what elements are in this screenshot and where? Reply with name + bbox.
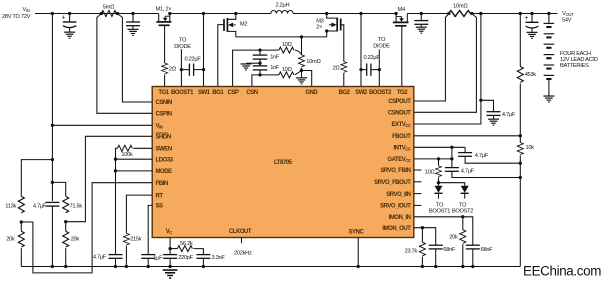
resistor 113k (FBIN divider top) [18,196,24,213]
svg-text:4.7µF: 4.7µF [33,203,47,209]
resistor 10k (FBOUT bottom divider) [519,136,521,143]
wire EXTVCC to VOUT rail [414,14,481,125]
resistor 10 Ohm (boost diodes feed) [438,159,440,166]
svg-text:EEChina.com: EEChina.com [523,264,601,279]
svg-text:BG2: BG2 [339,90,351,96]
capacitor (M4 output ceramic) [414,14,428,27]
svg-text:SS: SS [156,204,164,210]
svg-text:+: + [524,15,528,22]
wire kelvin CSNOUT [414,14,476,113]
ground (sense filter) [241,64,252,70]
svg-text:TG1: TG1 [158,90,169,96]
svg-text:CSP: CSP [228,90,239,96]
svg-text:20k: 20k [6,237,15,243]
capacitor 220pF (VC) [163,249,177,267]
svg-text:10Ω: 10Ω [425,170,436,176]
svg-text:10mΩ: 10mΩ [306,59,321,65]
capacitor 4.7uF (LDO33) [109,171,123,267]
svg-text:56.2k: 56.2k [180,241,193,247]
svg-text:TO: TO [179,37,187,43]
wire GND pin drop [302,71,312,87]
svg-text:4.7µF: 4.7µF [93,255,107,261]
resistor 23.7k (IMON_OUT) [421,228,423,243]
junction SW2 rail / M4 source [394,12,397,15]
junction VIN rail / input bulk cap [68,12,71,15]
svg-text:TO: TO [378,37,386,43]
svg-text:VIN: VIN [23,7,30,13]
svg-text:GATEVCC: GATEVCC [387,157,411,163]
ground (output bulk cap) [527,32,538,38]
junction VIN rail / VIN vertical [51,12,54,15]
svg-text:SHDN: SHDN [156,135,171,141]
svg-text:CSPIN: CSPIN [156,112,172,118]
svg-text:71.5k: 71.5k [70,203,83,209]
svg-text:DIODE: DIODE [373,43,390,49]
junction VIN vertical / 113k stub [51,158,54,161]
svg-text:SWEN: SWEN [156,147,172,153]
svg-text:DIODE: DIODE [174,44,191,50]
svg-text:TO: TO [459,202,467,208]
wire BOOST1 vertical (TO DIODE) [180,49,182,86]
svg-text:FOUR EACH: FOUR EACH [560,51,591,57]
inductor L1 2.2uH [271,11,293,14]
svg-text:4.7µF: 4.7µF [461,168,475,174]
pin stub SRVO_FBIN [414,169,422,171]
junction VIN vertical / VIN pin wire [51,124,54,127]
capacitor 68nF (IMON_IN) [466,245,480,266]
node M3 source junction [325,29,328,32]
svg-text:VIN: VIN [156,124,163,130]
svg-text:TG2: TG2 [397,90,408,96]
svg-text:20k: 20k [71,237,80,243]
resistor RSENSE1 5mOhm [101,11,116,17]
capacitor CIN2 (ceramic input cap) [126,14,140,29]
wire kelvin CSNIN [117,14,152,103]
svg-text:202kHz: 202kHz [234,251,252,257]
svg-text:IMON_IN: IMON_IN [389,215,411,221]
svg-text:10Ω: 10Ω [282,42,293,48]
svg-text:12V LEAD ACID: 12V LEAD ACID [560,57,598,63]
resistor 20k (SHDN divider bottom, right) [65,222,67,232]
wire VIN pin [52,124,152,126]
junction ground rail / VC ground [168,265,171,268]
capacitor 4.7uF (INTVCC) [458,147,520,163]
svg-text:+: + [61,15,65,22]
resistor 10 Ohm (CSN filter) [279,72,294,78]
svg-text:10mΩ: 10mΩ [453,4,468,10]
resistor 100k (SWEN pullup) [117,145,132,151]
svg-text:CSPOUT: CSPOUT [388,99,411,105]
wire SHDN [66,136,153,221]
wire mid node to ground [246,62,260,64]
junction SW2 rail / SW2 pin [359,12,362,15]
svg-text:FBIN: FBIN [156,181,168,187]
capacitor 1nF (lower) [253,66,268,75]
resistor 10 Ohm (CSP filter) [279,47,294,53]
svg-text:2×: 2× [316,25,322,31]
wire SW2 rail segment [293,13,396,15]
svg-text:FBOUT: FBOUT [392,134,411,140]
svg-text:3.3nF: 3.3nF [212,255,226,261]
wire M3 gate to BG2 with 2 Ohm [341,25,344,62]
svg-text:BOOST2: BOOST2 [369,90,392,96]
junction M1 source / SW1 rail [168,12,171,15]
junction ground rail / SYNC [357,265,360,268]
wire SYNC to ground rail [357,238,359,267]
wire FBOUT [414,135,520,137]
junction 5mOhm left kelvin [100,12,103,15]
diode D2 (TO BOOST2) [461,186,469,194]
svg-text:CSNIN: CSNIN [156,100,173,106]
junction ground rail / 23.7k [421,265,424,268]
capacitor 3.3nF (VC) [196,255,210,267]
capacitor 0.22uF (BOOST2) [361,64,379,76]
svg-text:10k: 10k [526,145,535,151]
junction SW1 rail / SW1 pin [202,12,205,15]
ground (EXTVCC cap) [488,119,499,125]
capacitor 0.22uF (BOOST1) [181,64,203,76]
capacitor CIN1 (polarized input bulk cap) [61,14,76,32]
svg-text:5mΩ: 5mΩ [103,5,115,11]
svg-text:GND: GND [305,90,318,96]
svg-text:SYNC: SYNC [349,230,365,236]
ground (battery) [543,96,554,102]
svg-text:453k: 453k [525,72,537,78]
svg-text:INTVCC: INTVCC [393,146,410,152]
capacitor 4.7uF (input divider bypass) [45,202,59,266]
wire kelvin CSPOUT [414,14,449,102]
svg-text:SW2: SW2 [355,90,368,96]
wire to diode D2 [439,183,465,186]
junction ground rail / 20k imon [461,265,464,268]
ground (10mOhm bottom) [301,71,303,78]
svg-text:TO: TO [436,202,444,208]
svg-text:23.7k: 23.7k [405,248,418,254]
wire VC pin drop [169,238,171,249]
pin stub SRVO_IIN [414,193,422,195]
svg-text:1µF: 1µF [153,255,163,261]
wire SW1 rail segment [170,13,271,15]
junction SW1 rail / M2 drain [234,12,237,15]
junction ground rail / 3.3nF [202,265,205,268]
junction SW2 rail / M3 drain [325,12,328,15]
wire SW1 vertical [203,14,205,87]
wire VIN vertical [51,14,53,201]
wire RT [126,195,152,233]
junction 5mOhm right kelvin [116,12,119,15]
svg-text:M2: M2 [240,22,247,28]
svg-text:VOUT: VOUT [562,11,574,17]
resistor 2 Ohm (TG1 gate) [162,63,168,74]
svg-text:68nF: 68nF [443,247,456,253]
ground (input ceramic cap) [128,29,139,35]
capacitor 4.7uF (EXTVCC) [481,100,501,118]
svg-text:BG1: BG1 [212,90,224,96]
pin stub SRVO_IOUT [414,204,422,206]
junction VIN vertical / 71.5k stub [51,181,54,184]
junction ground rail / 20k right [64,265,67,268]
svg-text:10Ω: 10Ω [282,67,293,73]
transistor M2 [224,14,236,37]
pin stub CLKOUT [241,238,243,244]
svg-text:SRVO_FBOUT: SRVO_FBOUT [374,180,411,186]
svg-text:BOOST1: BOOST1 [429,209,450,215]
wire BOOST2 vertical (TO DIODE) [378,50,380,87]
svg-text:SRVO_IOUT: SRVO_IOUT [380,204,411,210]
junction ground rail / divider bypass cap [51,265,54,268]
svg-text:220pF: 220pF [178,255,193,261]
ground (output ceramic cap) [416,27,427,33]
wire M2 gate to BG1 [218,25,224,87]
wire CSP filter line [233,50,279,86]
svg-text:BATTERIES: BATTERIES [560,63,589,69]
wire FBIN [21,183,152,273]
resistor 56.2k (VC) [170,248,177,250]
wire stub to 71.5k top [52,182,65,196]
resistor 20k (FBIN divider bottom, left) [20,222,22,231]
svg-text:RT: RT [156,193,164,199]
transistor M4 [393,14,409,26]
svg-text:2Ω: 2Ω [169,66,177,72]
wire M1 gate to TG1 with 2 Ohm [164,25,166,63]
svg-text:28V TO 72V: 28V TO 72V [2,14,31,20]
junction ground rail / 215k [125,265,128,268]
wire MODE tie [116,159,153,171]
svg-text:SW1: SW1 [198,90,211,96]
svg-text:100k: 100k [121,152,133,158]
op-amp U1 LT8705 body [152,87,414,238]
svg-text:SRVO_IIN: SRVO_IIN [386,192,410,198]
junction ground rail / 68nF out [434,265,437,268]
wire kelvin CSPIN [97,14,152,114]
node dots on VOUT rail [420,12,423,15]
resistor RSENSE 10mOhm (vertical) [301,37,303,55]
resistor 71.5k (SHDN divider top) [63,196,69,213]
svg-text:1nF: 1nF [270,65,280,71]
svg-text:LT8705: LT8705 [274,160,293,166]
wire CSN filter line [252,75,279,87]
junction ground rail / LDO33 cap [114,265,117,268]
wire SWEN via 100k [133,147,152,149]
svg-text:CLKOUT: CLKOUT [229,229,252,235]
svg-text:MODE: MODE [156,169,173,175]
svg-text:1nF: 1nF [270,54,280,60]
svg-text:M3: M3 [316,19,323,25]
wire SW2 vertical [360,14,362,87]
svg-text:LDO33: LDO33 [156,157,174,163]
wire stub to 113k top [21,160,52,197]
svg-text:2Ω: 2Ω [333,66,341,72]
wire GATEVCC tie to INTVCC [414,147,452,159]
resistor RSENSE2 10mOhm [449,11,471,17]
junction VIN rail / input ceramic cap [131,12,134,15]
svg-text:54V: 54V [562,17,572,23]
wire VOUT rail segment [407,13,449,15]
wire ground rail [21,266,520,268]
resistor 20k (IMON_IN) [462,217,464,230]
ground (input bulk cap) [64,32,75,38]
svg-text:4.7µF: 4.7µF [475,153,489,159]
svg-text:4.7µF: 4.7µF [502,112,516,118]
wire VIN input rail [35,13,159,15]
capacitor 1uF (SS) [141,255,155,267]
svg-text:BOOST2: BOOST2 [452,209,473,215]
svg-text:IMON_OUT: IMON_OUT [382,226,411,232]
pin stub SRVO_FBOUT [414,181,422,183]
transistor M1 [156,14,171,26]
wire SS [148,205,152,254]
junction ground rail / 68nF in [471,265,474,268]
svg-text:0.22µF: 0.22µF [185,57,202,63]
wire IMON_IN [414,217,473,245]
svg-text:CSN: CSN [246,90,257,96]
svg-text:0.22µF: 0.22µF [364,55,381,61]
svg-text:68nF: 68nF [481,247,494,253]
resistor 215k (RT) [123,233,129,245]
capacitor 1nF (upper) [253,50,268,66]
svg-text:2.2µH: 2.2µH [276,3,290,9]
resistor 453k (FBOUT top divider) [519,14,521,67]
svg-text:20k: 20k [449,235,458,241]
svg-text:M4: M4 [398,7,405,13]
battery stack (four 12V lead acid) [544,14,555,96]
transistor M3 [327,14,341,37]
svg-text:215k: 215k [130,237,142,243]
resistor 2 Ohm (BG2 gate) [341,62,347,73]
wire IMON_OUT [414,228,436,246]
wire M4 gate to TG2 [401,26,403,87]
wire INTVCC [414,146,465,148]
svg-text:CSNOUT: CSNOUT [388,111,411,117]
capacitor COUT (polarized output bulk) [524,14,538,32]
svg-text:VC: VC [166,229,173,235]
svg-text:SRVO_FBIN: SRVO_FBIN [380,168,410,174]
svg-text:BOOST1: BOOST1 [171,90,194,96]
junction ground rail / SS cap [147,265,150,268]
ground (main rail) [163,270,178,278]
diode D1 (TO BOOST1) [435,186,443,194]
svg-text:M1, 2×: M1, 2× [156,6,172,12]
capacitor 4.7uF (GATEVCC) [445,159,520,178]
svg-text:EXTVCC: EXTVCC [391,122,410,128]
wire LDO33 [116,158,153,160]
wire M2/M3 source bus to 10mOhm top [236,35,302,38]
svg-text:113k: 113k [5,203,16,209]
capacitor 68nF (IMON_OUT) [429,245,443,266]
